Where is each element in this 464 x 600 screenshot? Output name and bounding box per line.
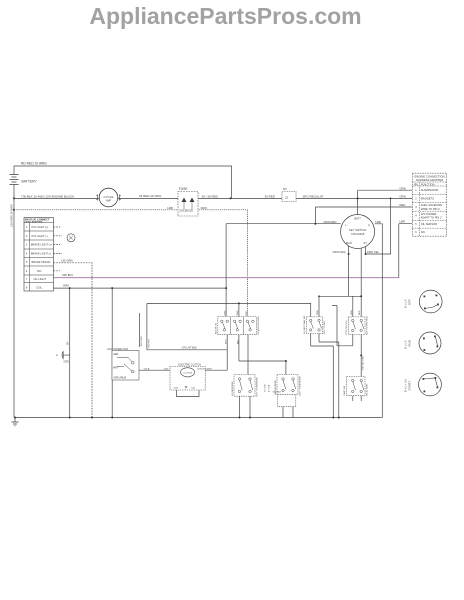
ignition position OFF circle [419, 290, 442, 313]
svg-text:OIL LIGHT: OIL LIGHT [34, 277, 47, 281]
svg-text:P/O LIGHT (-): P/O LIGHT (-) [32, 234, 48, 238]
svg-text:170 LHT BLK: 170 LHT BLK [182, 346, 198, 350]
svg-text:ORN: ORN [351, 310, 353, 315]
fuse F1 [178, 187, 198, 216]
svg-text:A: A [368, 223, 370, 227]
svg-text:HARNESS ADAPTER: HARNESS ADAPTER [416, 178, 443, 182]
pto switch S4 [348, 317, 365, 335]
ammeter M1 [96, 188, 121, 207]
svg-text:RED: RED [246, 310, 248, 315]
svg-text:SEAT SW: SEAT SW [343, 385, 346, 396]
key switch S1 [341, 215, 375, 249]
wire main 12V y198.4 [14, 197, 412, 199]
connector eyelet node [67, 234, 75, 242]
svg-text:1150: 1150 [164, 368, 169, 370]
svg-text:START: START [408, 381, 412, 391]
svg-text:N/C: N/C [37, 269, 42, 273]
wire neutral switch top pins [318, 296, 320, 317]
seat switch S5 [347, 377, 365, 396]
svg-text:NOT TO REVERSE: NOT TO REVERSE [299, 376, 301, 396]
svg-text:GRN: GRN [400, 186, 406, 190]
engine connection table [412, 173, 446, 236]
wire GRN RED key switch L to interlock pin1 [226, 224, 341, 317]
svg-text:LBR: LBR [400, 220, 405, 224]
electric clutch L1 [170, 364, 205, 390]
svg-text:L30 GRN 10 AWG: L30 GRN 10 AWG [10, 204, 14, 227]
svg-text:ON IN SEAT: ON IN SEAT [366, 383, 369, 396]
svg-text:PIN: PIN [414, 183, 418, 186]
svg-text:RED: RED [359, 310, 361, 315]
svg-text:BRAKE LIGHT (+): BRAKE LIGHT (+) [31, 243, 52, 247]
wire clutch link right 1190 BLK WHT [205, 369, 227, 371]
svg-text:FUSE: FUSE [179, 187, 188, 191]
wire ORN YEL key switch ST to engine table pin2 [366, 198, 391, 254]
wire neutral switch bottom L legs [311, 334, 334, 418]
svg-text:BN: BN [66, 341, 69, 345]
wire clutch link left [139, 369, 170, 371]
svg-text:L/H REVERSE: L/H REVERSE [232, 381, 234, 396]
svg-text:BATTERY: BATTERY [22, 180, 38, 184]
wire top RD RED from battery to vertical drop [14, 166, 232, 198]
svg-text:GRN: GRN [225, 310, 227, 315]
svg-text:1190 BLK WHT: 1190 BLK WHT [197, 368, 213, 370]
ground bus [15, 417, 382, 419]
svg-text:BRAKE LIGHT (-): BRAKE LIGHT (-) [31, 251, 52, 255]
wire reverse switch1 bottom to bus [240, 396, 251, 417]
reverse switch S6 [234, 375, 255, 397]
svg-text:CLUTCH: CLUTCH [183, 372, 192, 374]
svg-text:GRA: GRA [63, 284, 69, 288]
svg-text:RD RED 10 AWG: RD RED 10 AWG [21, 161, 47, 165]
svg-text:P/O LIGHT (+): P/O LIGHT (+) [32, 225, 49, 229]
svg-text:RED: RED [400, 203, 406, 207]
svg-text:WHT: WHT [226, 338, 228, 344]
svg-text:54 RED 16 AWG: 54 RED 16 AWG [139, 194, 162, 198]
svg-text:AMP: AMP [106, 199, 112, 202]
svg-text:PTO CLUTCH: PTO CLUTCH [346, 320, 348, 334]
svg-text:FUNCTION: FUNCTION [421, 182, 435, 186]
svg-text:30 / 30 RED: 30 / 30 RED [202, 194, 219, 198]
regulator U2 [282, 187, 296, 202]
svg-text:1201: 1201 [174, 387, 180, 389]
ground symbol chassis [12, 418, 19, 426]
light plug table [24, 218, 54, 292]
svg-text:L35 ORN: L35 ORN [61, 258, 73, 262]
svg-text:LBR: LBR [168, 206, 173, 210]
wire drop x146.9 to 170 LHT BLK [146, 303, 148, 349]
svg-text:WIRE TO PIN 3: WIRE TO PIN 3 [421, 207, 440, 211]
svg-text:COIL: COIL [36, 285, 43, 289]
svg-text:ORN: ORN [237, 310, 239, 315]
svg-text:ST JUB: ST JUB [265, 384, 267, 392]
wire strip pin2 drop [239, 303, 286, 374]
wire buzzer drop [69, 288, 71, 417]
svg-text:A: A [56, 353, 58, 357]
svg-text:ACC PLUG: ACC PLUG [215, 323, 218, 334]
svg-text:MAG: MAG [346, 241, 352, 245]
svg-text:47 JUB: 47 JUB [269, 384, 271, 392]
svg-text:LBR: LBR [376, 220, 381, 224]
wire strip pin1 bottom to clutch [226, 335, 228, 371]
svg-text:T30 BLK 10 AWG 12V ENGINE BLOC: T30 BLK 10 AWG 12V ENGINE BLOCK [21, 194, 74, 198]
wire ORN GRA key switch MAG [349, 246, 362, 296]
svg-text:INTERLOCK MOD: INTERLOCK MOD [258, 316, 260, 335]
svg-text:GRD ARLM: GRD ARLM [114, 377, 127, 380]
svg-text:BLK: BLK [237, 339, 239, 344]
svg-text:ORN YEL: ORN YEL [367, 250, 380, 254]
svg-text:SOLENOID: SOLENOID [180, 209, 194, 213]
svg-text:ADAPT TO PIN 2: ADAPT TO PIN 2 [421, 216, 442, 220]
svg-text:GRD: GRD [113, 353, 119, 356]
svg-text:S30 BLU: S30 BLU [62, 273, 73, 277]
wire pto switch top pins [353, 296, 361, 317]
wire fuse branch y209.8 [14, 210, 247, 317]
svg-text:12V POWER: 12V POWER [421, 212, 437, 216]
svg-text:ALTERNATOR: ALTERNATOR [421, 188, 439, 192]
svg-text:ACC INTERLOCK: ACC INTERLOCK [107, 347, 128, 351]
svg-text:NOT TO REVERSE: NOT TO REVERSE [256, 377, 258, 397]
acc interlock relay K1 [107, 347, 139, 380]
ignition position START circle [419, 373, 442, 396]
svg-text:P30 YEL: P30 YEL [149, 338, 151, 347]
reverse switch S7 [277, 375, 298, 395]
svg-text:P30 YEL GRN: P30 YEL GRN [362, 356, 364, 370]
svg-text:ST: ST [364, 241, 368, 245]
svg-text:ELECTRIC CLUTCH: ELECTRIC CLUTCH [179, 364, 201, 367]
wire interlock feed y296.3 [319, 295, 361, 297]
light plug stub dashes [54, 227, 63, 271]
wire reverse switch2 bottom to bus [283, 395, 293, 418]
svg-text:N/C: N/C [421, 230, 426, 234]
svg-text:LIGHT ADAPTER: LIGHT ADAPTER [25, 220, 43, 223]
svg-text:WHT BLK: WHT BLK [141, 336, 143, 346]
neutral switch S3 [307, 317, 323, 334]
wire RED to engine table pin3 [315, 207, 412, 224]
wire clutch ground loop [177, 390, 200, 397]
wire strip pin3 bottom to reverse switch [247, 335, 249, 375]
svg-text:30 RED: 30 RED [265, 194, 276, 198]
svg-text:OIL SENSOR: OIL SENSOR [421, 222, 437, 226]
svg-text:SPC REGULAT: SPC REGULAT [303, 194, 324, 198]
wire y303.4 branch [147, 303, 311, 317]
ignition position RUN circle [419, 332, 441, 354]
wire LBR key switch A to ground bus [375, 224, 383, 418]
svg-text:GRN RED: GRN RED [324, 220, 337, 224]
svg-text:OFF: OFF [408, 299, 412, 305]
wire GRN to engine table pin1 [358, 190, 413, 214]
svg-text:NOT TO REV: NOT TO REV [324, 320, 326, 334]
wire 170 LHT BLK [147, 349, 227, 351]
svg-text:RUN: RUN [408, 340, 412, 347]
watermark header [0, 3, 458, 30]
svg-text:WHT: WHT [113, 366, 119, 369]
svg-text:12V A: 12V A [144, 367, 150, 370]
svg-text:FUEL SOLENOID: FUEL SOLENOID [421, 203, 442, 207]
wire L35 ORN from light plug row5 [54, 263, 93, 418]
interlock module J1 [218, 317, 256, 335]
wire LBR to engine table pin5 [399, 224, 413, 278]
svg-text:NOT TO ENG RUN: NOT TO ENG RUN [366, 316, 368, 335]
wire P30 YEL GRN pto to seat switch [360, 334, 362, 376]
wire drop x112 [111, 288, 113, 417]
svg-text:BRAKE SIGNAL: BRAKE SIGNAL [32, 260, 52, 264]
wire pto switch bottom legs [332, 306, 353, 346]
wire GRA from light plug row8 [54, 287, 227, 289]
wire seat switch bottom stubs [353, 396, 361, 401]
svg-text:MAGNETO: MAGNETO [421, 197, 435, 201]
svg-text:725-04228: 725-04228 [351, 232, 365, 236]
wire left vertical L30 GRN [13, 166, 15, 418]
svg-text:ORN: ORN [317, 310, 319, 315]
connector C30 under S7 [273, 392, 296, 407]
svg-text:ORN GRA: ORN GRA [333, 250, 346, 254]
buzzer AL1 [56, 341, 70, 363]
svg-text:GRD: GRD [64, 361, 70, 364]
svg-text:ORN: ORN [201, 206, 207, 210]
svg-text:RV: RV [283, 187, 287, 191]
svg-text:S30 BLK: S30 BLK [273, 392, 282, 394]
wire S30 BLU from light plug row7 to oil sensor [54, 277, 399, 279]
svg-text:Z1: Z1 [285, 195, 289, 199]
svg-text:ORN: ORN [400, 194, 406, 198]
svg-text:L/H NEUTRAL SW: L/H NEUTRAL SW [303, 315, 306, 334]
svg-text:BATT: BATT [354, 217, 361, 221]
wire acc interlock top WHT BLK [139, 313, 141, 347]
battery B1 [10, 175, 19, 185]
